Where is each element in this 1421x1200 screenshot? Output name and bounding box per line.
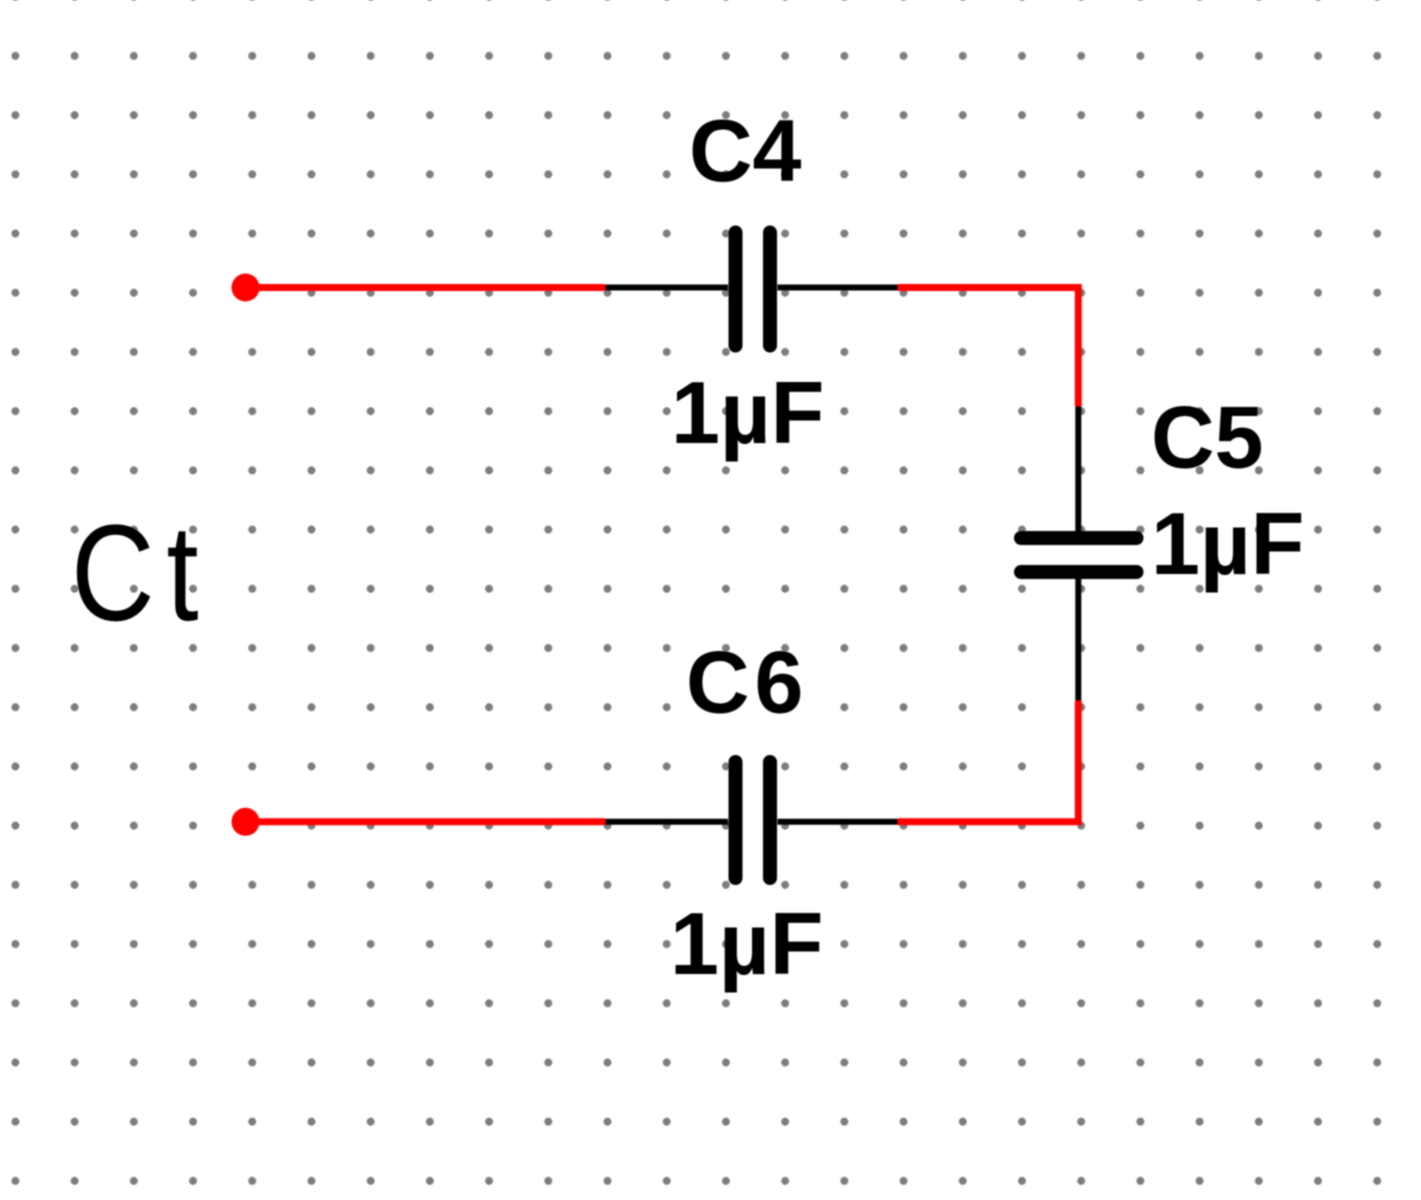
svg-text:C4: C4 bbox=[689, 101, 802, 200]
wire: C6 pin 1 lead (black) bbox=[605, 819, 728, 825]
svg-text:1µF: 1µF bbox=[670, 894, 823, 993]
wire net: C5 bottom lead down, corner left to C6 right lead (red) bbox=[898, 701, 1078, 822]
svg-text:Ct: Ct bbox=[71, 496, 210, 649]
wire net: C4 right lead to corner, down to C5 top lead (red) bbox=[898, 288, 1078, 407]
wire: C4 pin 1 lead (black) bbox=[605, 285, 728, 291]
terminal node 2 (red dot) bbox=[232, 808, 260, 836]
capacitor C5 (plates) bbox=[1021, 538, 1137, 572]
svg-text:1µF: 1µF bbox=[1151, 494, 1304, 593]
svg-text:C6: C6 bbox=[686, 633, 809, 732]
capacitor C6 (plates) bbox=[736, 762, 771, 878]
wire: C4 pin 2 lead (black) bbox=[778, 285, 899, 291]
wire: C5 pin 2 lead (black) bbox=[1075, 578, 1081, 701]
wire net Ct: terminal 1 to C4 left lead (red) bbox=[246, 284, 606, 291]
capacitor C4 (plates) bbox=[736, 233, 771, 346]
wire: C6 pin 2 lead (black) bbox=[778, 819, 899, 825]
terminal node 1 (red dot) bbox=[232, 274, 260, 302]
wire net Ct: C6 left lead to terminal 2 (red) bbox=[246, 818, 606, 825]
svg-text:1µF: 1µF bbox=[671, 363, 824, 462]
wire: C5 pin 1 lead (black) bbox=[1075, 406, 1081, 531]
svg-text:C5: C5 bbox=[1151, 388, 1264, 487]
